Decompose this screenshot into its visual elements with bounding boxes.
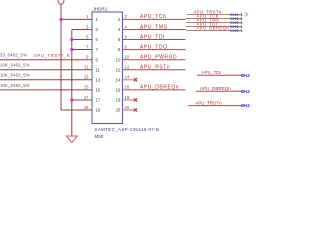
junction dot GND rail pin7 bbox=[70, 48, 73, 51]
svg-text:9: 9 bbox=[86, 55, 89, 60]
wire to pin15 bbox=[0, 89, 92, 91]
svg-text:11: 11 bbox=[96, 67, 101, 72]
svg-text:APU_DBREQn: APU_DBREQn bbox=[140, 85, 179, 91]
svg-text:17: 17 bbox=[84, 95, 89, 100]
svg-text:15: 15 bbox=[84, 85, 89, 90]
svg-text:APU_TRSTn: APU_TRSTn bbox=[195, 100, 222, 105]
wire GND vertical rail bbox=[71, 30, 73, 137]
power symbol VCC bbox=[58, 0, 64, 4]
svg-text:SAMTEC_ASP-136446-07-B: SAMTEC_ASP-136446-07-B bbox=[95, 127, 160, 132]
svg-text:APU_DBREQn: APU_DBREQn bbox=[197, 26, 230, 31]
wire off-page APU_TDI (mid right) bbox=[197, 74, 244, 76]
svg-text:1: 1 bbox=[86, 14, 89, 19]
svg-text:APU_TMS: APU_TMS bbox=[140, 24, 168, 30]
svg-text:10: 10 bbox=[116, 57, 121, 62]
svg-text:19: 19 bbox=[84, 105, 89, 110]
svg-text:14: 14 bbox=[125, 75, 130, 80]
svg-text:APU_DBREQn: APU_DBREQn bbox=[200, 86, 231, 91]
wire off-page APU_TCK (top cluster) bbox=[186, 17, 242, 19]
svg-text:8: 8 bbox=[125, 44, 128, 49]
svg-text:15: 15 bbox=[96, 88, 101, 93]
wire pin1 from VCC rail to connector bbox=[61, 18, 92, 20]
svg-text:10: 10 bbox=[125, 55, 130, 60]
wire pin19 from VCC rail corner bbox=[61, 109, 92, 111]
svg-text:18: 18 bbox=[116, 98, 121, 103]
svg-text:APU_PWRGD: APU_PWRGD bbox=[140, 55, 177, 61]
svg-text:16: 16 bbox=[125, 85, 130, 90]
off-page arrow (APU_TRSTn) bbox=[245, 13, 248, 17]
wire net APU_TRSTn_R to pin9 bbox=[0, 59, 92, 61]
junction dot GND rail pin17 bbox=[70, 99, 73, 102]
svg-text:4: 4 bbox=[125, 24, 128, 29]
wire net APU_PWRGD (pin10) bbox=[123, 59, 186, 61]
svg-text:6: 6 bbox=[125, 34, 128, 39]
wire net APU_TDI (pin6) bbox=[123, 39, 186, 41]
wire VCC vertical rail bbox=[60, 4, 62, 110]
wire net APU_TMS (pin4) bbox=[123, 29, 186, 31]
wire off-page APU_TDI (top cluster) bbox=[186, 25, 242, 27]
svg-text:33_0402_5%: 33_0402_5% bbox=[0, 53, 27, 58]
svg-text:JHDR1: JHDR1 bbox=[93, 7, 108, 12]
svg-text:19: 19 bbox=[96, 108, 101, 113]
no-connect X pin18 bbox=[134, 98, 137, 101]
wire off-page APU_TMS (top cluster) bbox=[186, 21, 242, 23]
no-connect X pin20 bbox=[134, 108, 137, 111]
svg-text:APU_TDI: APU_TDI bbox=[140, 34, 165, 40]
no-connect X pin14 bbox=[134, 78, 137, 81]
wire to pin11 bbox=[0, 69, 92, 71]
wire off-page APU_DBREQn (mid right) bbox=[196, 90, 244, 92]
wire net APU_DBREQn (pin16) bbox=[123, 89, 186, 91]
svg-text:13: 13 bbox=[96, 77, 101, 82]
svg-text:10K_0402_5%: 10K_0402_5% bbox=[0, 83, 30, 88]
svg-text:CH2.1: CH2.1 bbox=[230, 28, 243, 33]
svg-text:12: 12 bbox=[116, 67, 121, 72]
svg-text:APU_TCK: APU_TCK bbox=[140, 14, 167, 20]
ground symbol bbox=[66, 136, 77, 143]
svg-text:7: 7 bbox=[86, 44, 89, 49]
svg-text:2: 2 bbox=[125, 14, 128, 19]
wire stub pin18 no-connect bbox=[123, 99, 135, 101]
svg-text:11: 11 bbox=[84, 65, 89, 70]
svg-text:16: 16 bbox=[116, 88, 121, 93]
svg-text:5: 5 bbox=[86, 34, 89, 39]
svg-text:20: 20 bbox=[116, 108, 121, 113]
svg-text:12: 12 bbox=[125, 65, 130, 70]
wire net APU_TCK (pin2) bbox=[123, 18, 186, 20]
wire net APU_RSTn (pin12) bbox=[123, 69, 186, 71]
wire to pin13 bbox=[0, 79, 92, 81]
junction dot at VCC rail pin1 tap bbox=[60, 18, 63, 21]
wire stub pin20 no-connect bbox=[123, 109, 135, 111]
wire pin5 from GND rail bbox=[72, 39, 92, 41]
svg-text:10K_0402_5%: 10K_0402_5% bbox=[0, 63, 30, 68]
pin names inside right column bbox=[116, 17, 121, 113]
wire off-page APU_TRSTn (bottom right) bbox=[188, 105, 244, 107]
svg-text:20: 20 bbox=[125, 105, 130, 110]
svg-text:APU_TDO: APU_TDO bbox=[140, 44, 167, 50]
pin names inside left column bbox=[96, 17, 101, 113]
svg-text:18: 18 bbox=[125, 95, 130, 100]
svg-text:14: 14 bbox=[116, 77, 121, 82]
svg-text:CH2.1: CH2.1 bbox=[241, 89, 250, 94]
svg-text:CH2.1: CH2.1 bbox=[241, 103, 250, 108]
pin numbers left outside bbox=[84, 14, 89, 110]
wire stub pin14 no-connect bbox=[123, 79, 135, 81]
wire pin17 from GND rail bbox=[72, 99, 92, 101]
wire off-page APU_DBREQn (top cluster) bbox=[186, 29, 242, 31]
svg-text:13: 13 bbox=[84, 75, 89, 80]
svg-text:3: 3 bbox=[86, 24, 89, 29]
svg-text:10K_0402_5%: 10K_0402_5% bbox=[0, 73, 30, 78]
svg-text:M50: M50 bbox=[95, 134, 104, 139]
wire off-page APU_TRSTn (top cluster) bbox=[187, 13, 242, 15]
connector JHDR1 body bbox=[92, 12, 123, 124]
svg-text:APU_RSTn: APU_RSTn bbox=[140, 65, 170, 71]
svg-text:17: 17 bbox=[96, 98, 101, 103]
wire pin7 from GND rail bbox=[72, 49, 92, 51]
junction dot GND rail pin5 bbox=[70, 38, 73, 41]
svg-text:CH2.1: CH2.1 bbox=[241, 73, 250, 78]
pin numbers right outside bbox=[125, 14, 130, 110]
wire net APU_TDO (pin8) bbox=[123, 49, 186, 51]
svg-text:APU_TDI: APU_TDI bbox=[202, 70, 221, 75]
svg-text:APU_TRSTn_R: APU_TRSTn_R bbox=[34, 53, 70, 58]
wire pin3 from GND rail bbox=[72, 29, 92, 31]
